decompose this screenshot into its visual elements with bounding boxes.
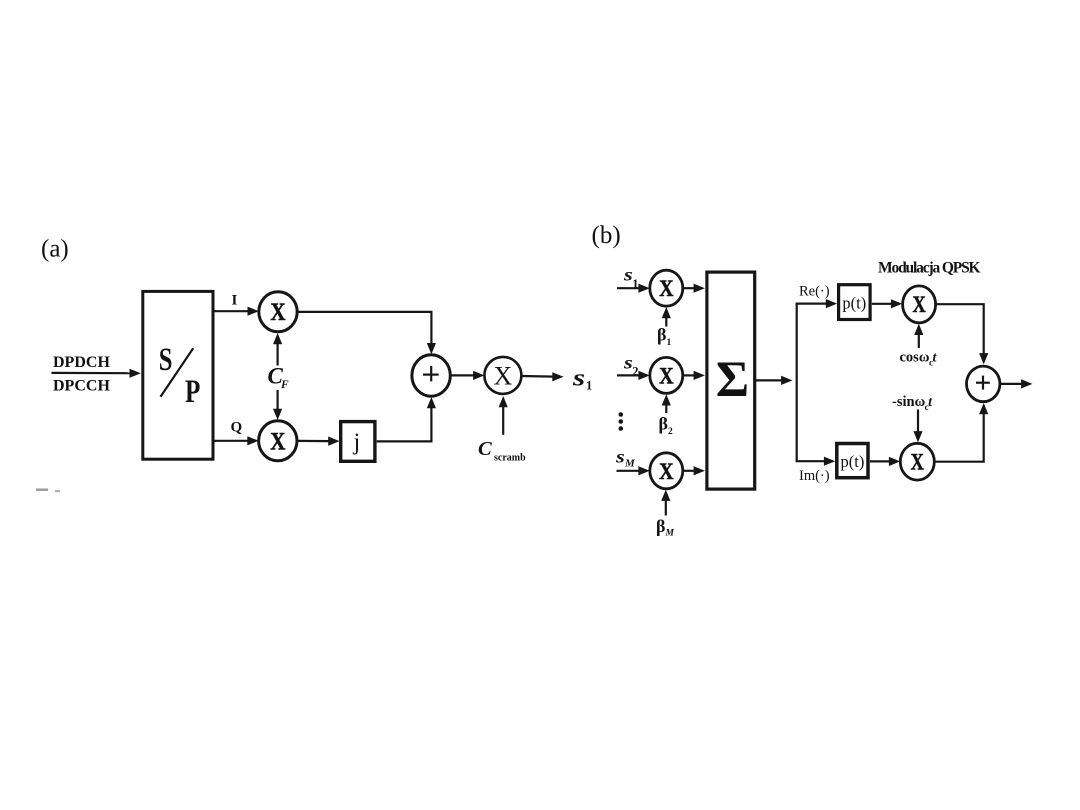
svg-text:X: X [659, 459, 674, 485]
svg-text:DPCCH: DPCCH [53, 378, 110, 395]
filter p(t) top [839, 285, 871, 320]
svg-text:X: X [270, 297, 285, 325]
label C_F [268, 364, 290, 392]
svg-text:F: F [280, 379, 289, 391]
wire betaM to X6 [661, 490, 670, 516]
multiplier X2 [259, 421, 297, 461]
wire C_scramb to X3 [499, 396, 508, 435]
svg-text:X: X [659, 276, 674, 302]
spreading code C_F double arrow [273, 333, 282, 420]
multiplier X8 [900, 443, 934, 480]
label sM input [615, 447, 636, 469]
wire beta1 to X4 [662, 307, 671, 327]
multiplier X1 [259, 292, 297, 332]
wire beta2 to X5 [662, 394, 671, 413]
svg-text:1: 1 [667, 338, 672, 348]
label s1 input [623, 265, 639, 291]
weight beta1 [657, 325, 672, 349]
wire Re branch [796, 299, 838, 308]
node split vertical [796, 304, 798, 462]
wire X6 to sum [683, 466, 705, 475]
svg-text:2: 2 [668, 427, 673, 437]
multiplier X6 [650, 453, 683, 489]
wire X1 to adder A1 [297, 312, 436, 354]
svg-text:Im(·): Im(·) [799, 468, 830, 484]
svg-text:s: s [572, 365, 585, 392]
wire Q output [214, 436, 258, 445]
svg-text:X: X [912, 291, 925, 318]
svg-text:S: S [159, 342, 173, 378]
svg-text:p(t): p(t) [840, 452, 864, 471]
svg-text:β: β [656, 516, 665, 536]
wire adder A1 to multiplier X3 [450, 371, 484, 380]
wire X7 to adder A2 [936, 304, 989, 364]
wire p(t) top to X7 [872, 299, 902, 308]
weight betaM [656, 516, 675, 539]
weight beta2 [659, 414, 674, 438]
multiplier X4 [650, 270, 683, 306]
wire X4 to sum [683, 284, 705, 293]
multiplier X3 scrambler [484, 357, 521, 394]
adder A2 [967, 366, 1000, 402]
wire sin to X8 [913, 410, 922, 443]
svg-text:cosωct: cosωct [900, 350, 938, 368]
svg-text:1: 1 [586, 379, 592, 393]
wire I output [214, 307, 258, 316]
svg-text:Σ: Σ [716, 352, 749, 408]
wire p(t) bottom to X8 [870, 457, 900, 466]
svg-text:X: X [494, 361, 513, 390]
summation block sigma [707, 272, 755, 489]
multiplier X5 [650, 357, 683, 393]
svg-text:scramb: scramb [494, 453, 526, 464]
svg-text:C: C [478, 438, 492, 460]
svg-text:Re(·): Re(·) [799, 284, 830, 300]
block S/P serial-to-parallel [143, 291, 213, 459]
wire Im branch [796, 457, 836, 466]
ellipsis dots [619, 412, 624, 431]
label s1 output [572, 365, 592, 393]
svg-text:M: M [624, 458, 636, 470]
svg-text:P: P [185, 374, 200, 410]
wire input arrow into S/P [52, 369, 141, 378]
svg-text:p(t): p(t) [842, 294, 866, 313]
svg-text:X: X [659, 363, 674, 389]
svg-text:Modulacja QPSK: Modulacja QPSK [878, 260, 981, 277]
smudge artifact [36, 489, 60, 493]
svg-text:j: j [352, 430, 360, 456]
svg-text:M: M [665, 529, 675, 539]
filter p(t) bottom [837, 444, 868, 478]
wire X3 output [521, 372, 563, 381]
wire X2 to block j [297, 437, 340, 446]
wire j to adder A1 [377, 397, 436, 441]
svg-text:β: β [657, 325, 666, 345]
svg-text:(a): (a) [41, 236, 69, 263]
label C_scramb [478, 438, 526, 464]
svg-text:β: β [659, 414, 668, 434]
wire final output [1000, 379, 1033, 388]
wire s2 to X5 [617, 371, 650, 380]
svg-text:DPDCH: DPDCH [53, 354, 110, 371]
wire X8 to adder A2 [934, 403, 988, 462]
wire X5 to sum [683, 371, 705, 380]
svg-text:s: s [615, 447, 625, 466]
label s2 input [623, 353, 639, 378]
svg-text:I: I [232, 293, 238, 309]
block j imaginary unit [341, 422, 375, 462]
wire sigma output [756, 376, 792, 385]
wire sM to X6 [617, 466, 650, 475]
wire s1 to X4 [617, 284, 650, 293]
multiplier X7 [903, 286, 936, 323]
wire cos to X7 [914, 324, 923, 348]
svg-text:Q: Q [231, 420, 243, 436]
svg-text:X: X [270, 427, 285, 455]
adder A1 [412, 355, 450, 396]
svg-text:(b): (b) [592, 222, 621, 249]
svg-text:X: X [911, 449, 924, 476]
